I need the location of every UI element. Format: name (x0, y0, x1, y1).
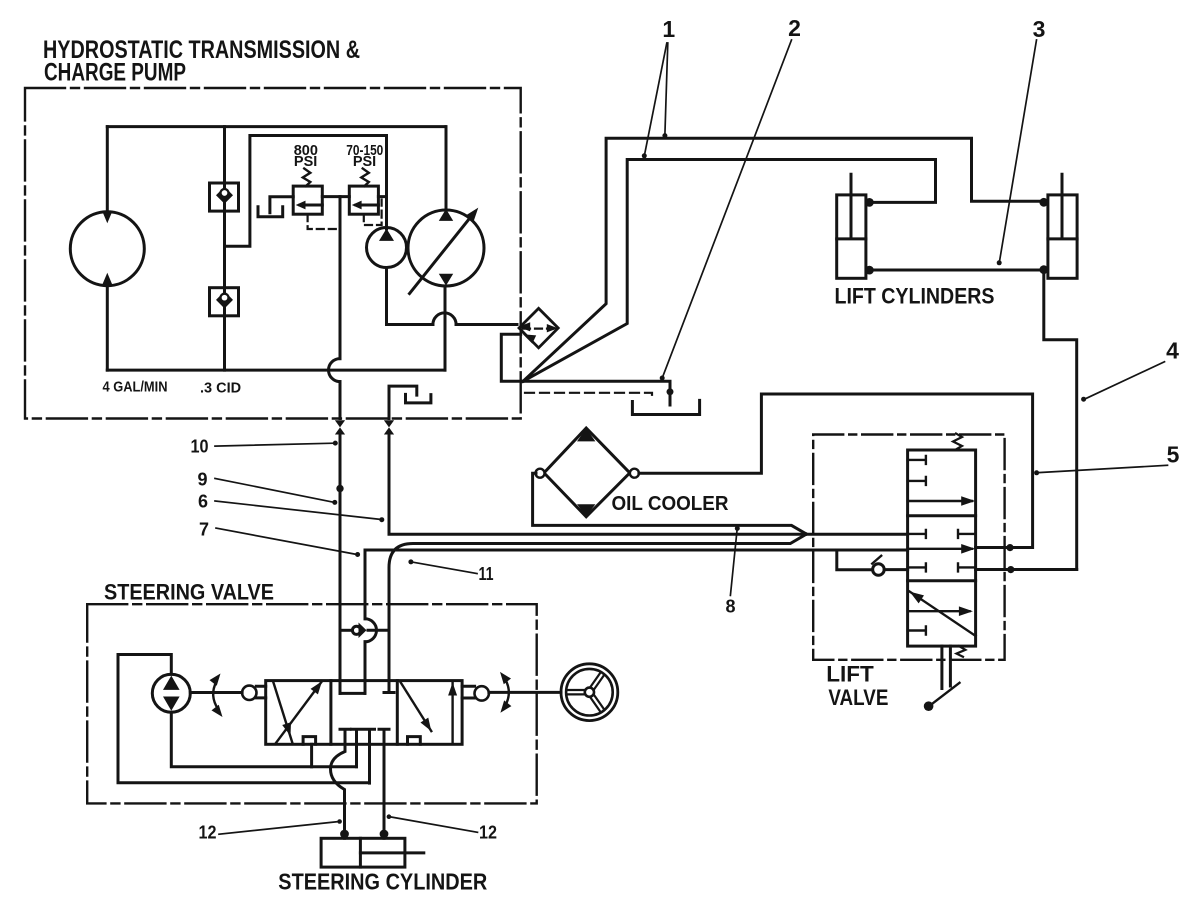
svg-text:VALVE: VALVE (828, 685, 888, 710)
svg-text:8: 8 (725, 597, 735, 617)
svg-text:2: 2 (788, 15, 801, 41)
svg-text:LIFT CYLINDERS: LIFT CYLINDERS (835, 284, 995, 309)
svg-text:PSI: PSI (353, 154, 376, 170)
svg-text:OIL COOLER: OIL COOLER (612, 492, 729, 515)
svg-text:5: 5 (1167, 442, 1180, 468)
svg-text:12: 12 (479, 823, 497, 843)
svg-text:11: 11 (479, 564, 494, 584)
svg-text:.3 CID: .3 CID (200, 381, 241, 397)
svg-text:1: 1 (662, 16, 675, 42)
svg-text:LIFT: LIFT (826, 662, 874, 687)
svg-text:PSI: PSI (294, 154, 317, 170)
svg-text:CHARGE PUMP: CHARGE PUMP (44, 59, 186, 87)
svg-text:12: 12 (199, 823, 217, 843)
svg-text:10: 10 (191, 437, 209, 457)
svg-text:STEERING VALVE: STEERING VALVE (104, 580, 274, 605)
svg-text:STEERING CYLINDER: STEERING CYLINDER (278, 869, 487, 895)
svg-text:3: 3 (1033, 16, 1046, 42)
svg-text:7: 7 (199, 520, 209, 540)
svg-text:9: 9 (197, 470, 207, 490)
svg-text:4: 4 (1166, 338, 1179, 364)
svg-text:4 GAL/MIN: 4 GAL/MIN (103, 380, 168, 396)
svg-text:6: 6 (198, 492, 208, 512)
